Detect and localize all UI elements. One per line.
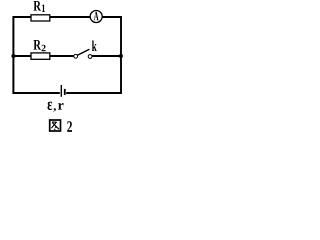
label k bbox=[92, 41, 97, 52]
switch k blade bbox=[77, 49, 89, 55]
caption: figure number 2 bbox=[67, 121, 72, 132]
wire: middle branch left segment bbox=[13, 55, 73, 57]
wire: top branch horizontal (node A1 to A2) bbox=[13, 16, 121, 18]
switch k left terminal bbox=[74, 54, 78, 58]
wire: bottom right segment bbox=[66, 92, 121, 94]
resistor R2 body bbox=[31, 53, 50, 59]
label emf epsilon bbox=[48, 102, 53, 110]
wire: middle branch right segment bbox=[92, 55, 121, 57]
label internal resistance r bbox=[58, 103, 64, 110]
switch k right terminal bbox=[88, 55, 92, 59]
battery cell long plate (+) bbox=[60, 85, 62, 97]
ammeter A1 letter bbox=[94, 12, 99, 20]
label R1 bbox=[34, 1, 46, 12]
wire: bottom left segment bbox=[13, 92, 59, 94]
label R2 bbox=[34, 40, 46, 51]
caption: 图 character (drawn) bbox=[50, 120, 61, 131]
wire: right vertical rail bbox=[120, 16, 122, 94]
battery cell short plate (-) bbox=[64, 89, 66, 95]
punctuation comma between labels bbox=[53, 108, 56, 112]
ammeter A1 body bbox=[90, 11, 102, 23]
node: right junction dot bbox=[119, 54, 123, 58]
node: left junction dot bbox=[11, 54, 15, 58]
resistor R1 body bbox=[31, 15, 50, 21]
wire: left vertical rail bbox=[12, 16, 14, 94]
